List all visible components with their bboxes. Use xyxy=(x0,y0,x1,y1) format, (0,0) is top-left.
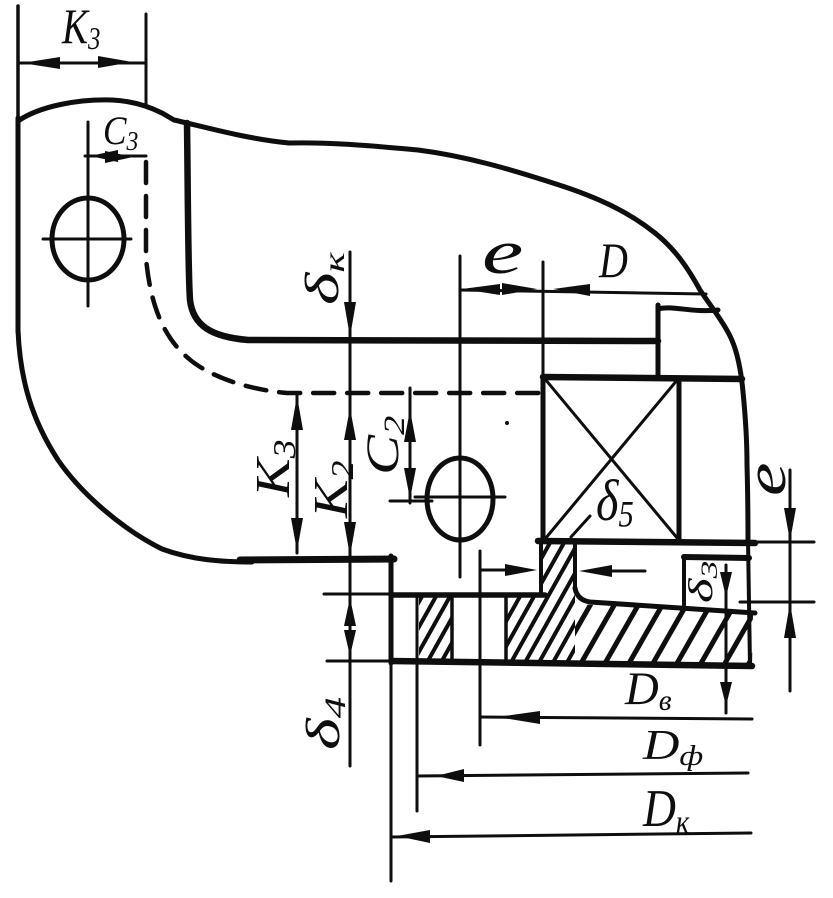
step top wavy line xyxy=(658,308,718,311)
C3 dimension line xyxy=(85,155,146,158)
delta5 left arrow xyxy=(505,564,537,576)
Df extension line xyxy=(416,594,419,811)
hole 1 vertical centerline xyxy=(87,122,90,306)
flange top line xyxy=(391,592,545,598)
svg-text:δк: δк xyxy=(295,252,351,305)
svg-text:C3: C3 xyxy=(103,109,138,156)
K3 vertical down arrow xyxy=(291,518,303,551)
delta5 right arrow line xyxy=(600,570,645,573)
bolt hole right edge in flange xyxy=(504,595,508,661)
D left arrow xyxy=(553,284,590,296)
deltaK down arrow xyxy=(344,302,356,337)
flange left edge xyxy=(389,556,394,663)
delta3 dimension line xyxy=(725,565,728,713)
bearing top thick line xyxy=(543,377,742,379)
Dv extension line xyxy=(479,551,482,745)
inner wall of cover xyxy=(187,123,658,341)
K3 top left arrow xyxy=(22,57,60,69)
hole 2 horizontal centerline xyxy=(415,496,505,499)
flange bottom extension left xyxy=(327,660,391,663)
delta5 left arrow line xyxy=(481,569,520,572)
delta3 lower down arrow xyxy=(720,682,732,706)
bolt hole left edge in flange xyxy=(450,595,454,661)
svg-text:e: e xyxy=(482,219,523,287)
outer contour: lower-left curve xyxy=(18,330,252,562)
hole 1 ellipse xyxy=(52,198,124,280)
recess bottom extension right xyxy=(740,601,814,604)
Dv arrow xyxy=(497,711,540,724)
svg-text:δ4: δ4 xyxy=(296,697,352,750)
svg-text:K3: K3 xyxy=(61,0,100,57)
svg-text:K2: K2 xyxy=(303,461,360,520)
common vertical dimension line x=350 xyxy=(349,252,352,766)
flange top extension left xyxy=(324,593,391,596)
hole 1 horizontal centerline xyxy=(43,238,131,241)
svg-text:Dв: Dв xyxy=(624,663,672,717)
e left arrow xyxy=(462,284,500,295)
Dk dimension line xyxy=(391,833,751,837)
hole 2 vertical centerline / e extension line xyxy=(459,256,462,577)
hidden line dashed contour xyxy=(146,162,543,393)
Dk extension line xyxy=(390,663,393,881)
svg-text:Dф: Dф xyxy=(642,723,703,772)
bore bottom thick line xyxy=(538,541,755,543)
hatch: slab right part xyxy=(575,604,753,666)
e/D dimension line xyxy=(460,290,706,294)
K3 top dimension line xyxy=(18,62,146,65)
C2 bottom tick xyxy=(390,500,432,503)
C3 left arrow xyxy=(90,150,118,162)
step vertical at bore end xyxy=(656,305,661,377)
e right up arrow xyxy=(784,603,796,638)
svg-text:C2: C2 xyxy=(356,416,411,475)
Dv dimension line xyxy=(480,717,752,719)
bearing X diagonal 1 xyxy=(545,379,678,539)
K2 down arrow xyxy=(344,522,356,556)
K3 vertical dimension line xyxy=(296,394,299,553)
outer contour: top wavy outline xyxy=(18,100,748,542)
stray dot xyxy=(505,421,509,425)
hatch: main slab xyxy=(506,595,575,661)
C2 dimension line xyxy=(409,388,412,503)
delta5 leader line xyxy=(571,516,590,537)
recess bottom sloping line xyxy=(575,588,755,613)
shelf left edge xyxy=(682,556,686,605)
K3 top extension line right xyxy=(145,14,148,104)
e right dimension line xyxy=(789,470,792,691)
bearing X diagonal 2 xyxy=(545,379,678,539)
Df dimension line xyxy=(417,773,748,776)
part right edge lower xyxy=(748,540,750,666)
Df arrow xyxy=(436,769,464,782)
flange bottom thick line xyxy=(391,661,752,666)
e right down arrow xyxy=(784,508,796,541)
e right arrow xyxy=(502,283,537,295)
hatch: bearing lip xyxy=(541,541,575,595)
hatch: left flange block xyxy=(419,595,452,661)
delta4 up arrow xyxy=(344,598,356,626)
hole 2 ellipse xyxy=(427,458,493,540)
bearing box right edge xyxy=(677,378,682,541)
C3 right arrow xyxy=(105,151,133,163)
svg-text:e: e xyxy=(733,463,798,496)
bearing lip left edge xyxy=(539,541,543,593)
svg-text:K3: K3 xyxy=(245,440,302,499)
delta3 upper down arrow xyxy=(720,572,732,597)
shelf top thick line xyxy=(684,557,749,558)
delta4 down arrow xyxy=(344,630,356,656)
bearing left extension line up xyxy=(542,262,545,377)
deltaK/K2 up arrow xyxy=(344,408,356,440)
delta5 right arrow xyxy=(579,565,612,577)
K3 vertical up arrow xyxy=(291,396,303,430)
arm bottom thick line xyxy=(240,559,394,560)
bearing lip right edge xyxy=(573,541,577,589)
outer contour: left edge vertical xyxy=(16,6,20,120)
svg-text:Dк: Dк xyxy=(642,779,690,841)
K3 top right arrow xyxy=(98,56,132,68)
bore bottom extension right xyxy=(755,541,814,544)
C2 down arrow xyxy=(404,468,416,499)
svg-text:D: D xyxy=(598,233,628,288)
C2 up arrow xyxy=(404,410,416,442)
C3 extension tick xyxy=(87,124,90,162)
svg-text:δ3: δ3 xyxy=(681,561,722,603)
Dk arrow xyxy=(397,830,430,843)
bearing box left edge xyxy=(541,377,546,541)
